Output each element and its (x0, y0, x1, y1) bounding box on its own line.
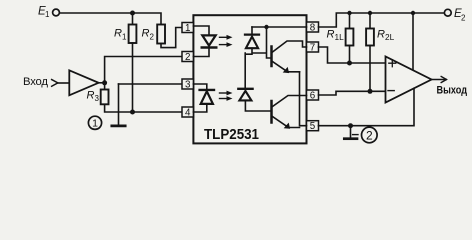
svg-text:R: R (142, 27, 150, 39)
op-amp U1 input buffer (69, 70, 98, 95)
wire R1L top lead (349, 13, 351, 29)
wire comparator ground return to pin 5 (319, 88, 415, 125)
photodiode VD1 (245, 35, 259, 49)
pin 5 box (307, 121, 319, 131)
circled marker 1 (88, 116, 101, 129)
wire pin 8 to top rail and E2 (319, 13, 445, 27)
wire R1L bottom lead (349, 46, 351, 64)
wire R1 top lead (132, 13, 134, 25)
node E1 terminal (53, 9, 60, 16)
svg-text:3: 3 (95, 94, 100, 103)
ground stem left (118, 84, 120, 125)
svg-text:R: R (87, 90, 95, 102)
wire internal Vcc rail (252, 26, 307, 28)
wire R2L bottom lead (369, 46, 371, 92)
pin 6 box (307, 90, 319, 100)
IC U2 TLP2531 body (193, 15, 306, 143)
minus input mark (388, 90, 394, 92)
resistor R3 (101, 90, 109, 105)
svg-text:1L: 1L (335, 32, 345, 42)
ground (344, 137, 357, 140)
wire Q1 emitter to pin 5 (300, 72, 307, 126)
op-amp U3 output comparator (386, 57, 432, 103)
wire pin 1 to LED D1 anode (193, 26, 209, 35)
wire LED D2 anode to pin 4 (193, 104, 206, 112)
wire R1 bottom lead (132, 43, 134, 112)
LED D2 (200, 90, 214, 104)
wire supply from rail to comparator (412, 13, 414, 70)
node junction dot above R1 (130, 11, 135, 16)
resistor R1L (346, 29, 354, 46)
input chevron (51, 79, 58, 86)
output arrowhead (441, 77, 446, 83)
svg-text:1: 1 (185, 23, 190, 34)
dash pointer at circled 2 (353, 134, 358, 136)
wire pin 3 line with ground tap (119, 83, 183, 85)
node junction dot R1L (347, 61, 352, 66)
wire E1 rail to R2 top (59, 13, 161, 25)
transistor Q1 (272, 41, 307, 73)
node internal rail dot (264, 25, 268, 29)
svg-text:4: 4 (185, 108, 191, 119)
wire LED D1 cathode to pin 2 (193, 49, 209, 57)
plus input mark (389, 60, 396, 67)
circled marker 2 (362, 127, 378, 143)
label E1 (23, 6, 467, 143)
wire R2 bottom to pin 1 (161, 28, 182, 48)
node junction dot R1 bottom (130, 110, 135, 115)
wire rail to photodiode VD1 (251, 27, 253, 34)
wire VD1 anode jog to T1 base (252, 27, 272, 58)
node rail dot above comparator (411, 11, 415, 15)
wire buffer output to node (99, 82, 105, 84)
svg-text:5: 5 (310, 121, 316, 132)
svg-text:2: 2 (461, 14, 466, 23)
wire pin 6 to comparator minus input (319, 91, 386, 95)
wire node up to pin 2 (105, 57, 182, 83)
svg-text:6: 6 (310, 91, 316, 102)
resistor R2L (366, 29, 374, 46)
pin 2 box (182, 52, 193, 62)
svg-text:2L: 2L (385, 32, 395, 42)
svg-text:7: 7 (310, 43, 315, 54)
wire R3 top lead (104, 83, 106, 90)
light arrows channel 2 (220, 91, 233, 101)
photodiode VD2 (238, 89, 252, 101)
svg-text:2: 2 (366, 128, 373, 142)
light arrows channel 1 (220, 35, 233, 47)
svg-text:1: 1 (122, 32, 127, 41)
svg-text:2: 2 (150, 32, 155, 41)
svg-text:R: R (377, 28, 385, 40)
resistor R1 (129, 25, 137, 44)
wire pin 7 to comparator plus input (319, 47, 386, 63)
wire R2L top lead (369, 13, 371, 29)
pin 4 box (182, 107, 193, 117)
node rail dot above R1L (347, 11, 351, 15)
wire photodiode VD2 cathode riser (245, 53, 252, 88)
resistor R2 (157, 25, 165, 44)
wire pin 3 to LED D2 (193, 84, 206, 89)
svg-text:1: 1 (45, 10, 50, 19)
pin 7 box (307, 42, 319, 52)
svg-text:Вход: Вход (23, 76, 48, 88)
svg-text:1: 1 (92, 118, 98, 130)
ground stem right (350, 126, 352, 139)
transistor Q2 (272, 96, 307, 129)
pin 8 box (307, 22, 319, 32)
svg-text:R: R (327, 28, 335, 40)
node buffer output dot (102, 80, 107, 85)
svg-text:Выход: Выход (437, 85, 468, 97)
svg-text:R: R (114, 27, 122, 39)
svg-text:8: 8 (310, 23, 316, 34)
node junction dot R2L (368, 89, 373, 94)
pin 3 box (182, 79, 193, 89)
ground (112, 125, 125, 128)
LED D1 (202, 35, 217, 47)
node junction dot ground right (348, 123, 353, 128)
wire R3 bottom to pin 4 (105, 104, 182, 112)
svg-text:TLP2531: TLP2531 (204, 126, 259, 143)
node rail dot above R2L (368, 11, 372, 15)
wire buffer input (58, 82, 70, 84)
svg-text:2: 2 (185, 52, 190, 63)
wire VD2 anode to T2 base (245, 100, 271, 111)
wire comparator output (432, 79, 447, 81)
svg-text:3: 3 (185, 80, 191, 91)
pin 1 box (182, 23, 193, 33)
node E2 terminal (444, 9, 451, 16)
